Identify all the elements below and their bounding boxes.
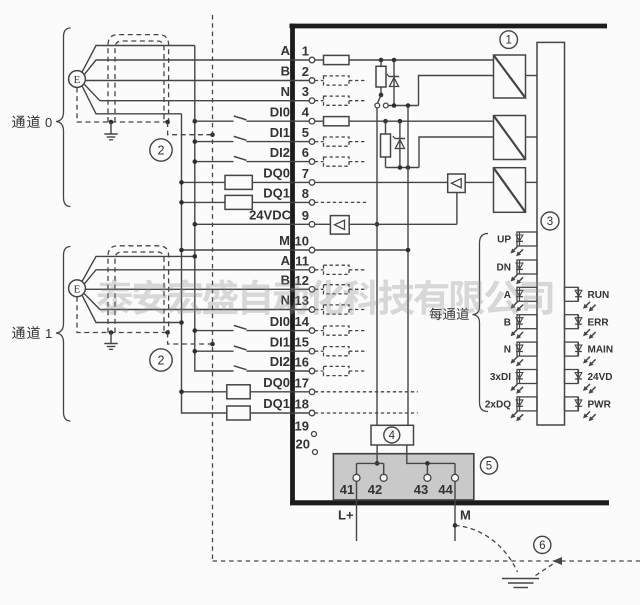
label 通道 0 [12,115,52,130]
shield drain junction dots channel 1 [109,330,170,335]
signal label M row 10 [279,233,290,248]
suppressor diode group 1 [387,60,399,106]
svg-text:24VD: 24VD [588,372,613,383]
input resistor row 6 (dashed) [315,157,367,166]
terminal number 13 [295,293,309,308]
svg-text:ERR: ERR [588,317,610,328]
wire terminal 41-42 bus [357,462,384,464]
terminal number 8 [302,186,309,201]
shield drain junction dots channel 0 [109,120,170,125]
output driver DQ0 [448,174,466,193]
comparator reference line group 1 [388,76,493,108]
terminal number 3 [302,84,309,99]
svg-text:3: 3 [547,216,553,228]
svg-text:2: 2 [158,354,165,368]
svg-text:DQ0: DQ0 [263,166,290,181]
svg-text:RUN: RUN [588,290,610,301]
signal label B row 12 [281,273,290,288]
LED 3xDI (channel) [490,370,537,394]
circled 5 [480,457,497,474]
signal label 24VDC row 9 [249,208,292,223]
terminal 13 circle [309,307,315,313]
wire row 10 (M) inside [315,249,408,251]
functional earth dashed vertical line [212,15,214,561]
wire 24VDC row lead [193,222,310,227]
terminal number 9 [302,208,309,223]
label 通道 1 [12,326,52,341]
signal label DI2 row 6 [270,145,290,160]
LED B (channel) [504,315,537,339]
opto-coupler U1 [494,55,526,98]
svg-text:11: 11 [295,253,309,268]
shield ellipse outer channel 0 [108,35,169,122]
functional earth dashed bottom line [213,560,640,562]
input resistor row 12 (dashed) [315,285,367,294]
LED ERR (module) [565,315,610,339]
terminal 9 circle [309,222,315,228]
svg-text:9: 9 [302,208,309,223]
svg-text:18: 18 [295,397,309,412]
wire encoder ch0 B lead [85,80,309,82]
comparator reference line group 2 [386,137,494,170]
input resistor row 5 (dashed) [315,137,367,146]
terminal 8 circle [309,200,315,206]
signal label DQ1 row 18 [263,396,290,411]
LED 2xDQ (channel) [485,397,537,421]
svg-text:DQ1: DQ1 [263,186,290,201]
svg-text:DQ1: DQ1 [263,396,290,411]
load DQ1 ch0 [179,195,309,209]
wire encoder ch0 M lead [82,85,182,113]
terminal 41 [340,463,360,497]
svg-text:N: N [281,84,290,99]
wire encoder ch1 B lead [85,288,309,290]
terminal 3 circle [309,98,315,104]
svg-text:3: 3 [302,84,309,99]
terminal 1 circle [309,57,315,63]
svg-text:14: 14 [295,314,310,329]
wire 24VDC to driver supply [349,193,457,225]
shield drain dashed line channel 1 [77,297,168,333]
opto-coupler U3 [494,168,526,213]
terminal 17 circle [309,389,315,395]
wire encoder ch0 N lead [84,84,309,100]
input resistor row 14 (dashed) [315,326,367,335]
module enclosure bottom edge [290,500,609,505]
input resistor row 15 (dashed) [315,347,367,356]
svg-text:MAIN: MAIN [588,345,614,356]
signal label DI0 row 14 [270,314,290,329]
svg-text:2: 2 [158,144,165,158]
svg-text:DI0: DI0 [270,314,290,329]
svg-text:20: 20 [296,437,310,452]
label M power [460,508,471,523]
label L+ [338,508,354,523]
svg-text:0: 0 [45,115,52,130]
svg-text:E: E [74,74,81,86]
signal label N row 13 [281,293,290,308]
input resistor row 4 (solid) [315,117,349,126]
supply driver 24VDC [330,216,349,235]
shield ellipse inner channel 1 [115,252,164,333]
terminal 43 [414,463,431,497]
LED PWR (module) [565,397,612,421]
terminal 20 circle and number [296,437,318,455]
signal label A row 11 [281,253,291,268]
circled 1 [500,31,518,49]
svg-text:DI2: DI2 [270,145,290,160]
shield drain to equipotential line channel 1 [168,333,215,347]
wire opto U2 to bus interface [526,136,538,138]
LED N (channel) [504,342,537,366]
svg-text:2xDQ: 2xDQ [485,400,511,411]
wire row 9 inside [315,223,331,225]
LED RUN (module) [565,287,610,311]
circled 3 [541,212,559,230]
svg-text:B: B [281,64,290,79]
shield drain to equipotential line channel 0 [168,122,215,137]
brace channel 1 [56,247,71,422]
switch contact DI0 ch1 [193,325,310,333]
wire encoder ch1 N lead [84,294,309,310]
signal label DI1 row 15 [270,334,290,349]
encoder E channel 1 [69,280,86,297]
svg-text:L+: L+ [338,508,354,523]
svg-text:24VDC: 24VDC [249,208,292,223]
watermark company name [97,279,552,315]
svg-text:6: 6 [539,540,545,552]
input resistor row 2 (dashed) [315,76,367,85]
circled 2 channel 0 [150,139,172,161]
terminal number 6 [302,145,309,160]
earth ground symbol [502,579,539,588]
svg-text:M: M [460,508,471,523]
svg-text:10: 10 [295,234,309,249]
LED UP (channel) [497,232,537,256]
switch contact DI2 ch1 [234,366,309,371]
load DQ1 ch1 [227,406,309,420]
svg-text:DI1: DI1 [270,334,290,349]
signal label DI2 row 16 [270,354,290,369]
wire row 4 to opto-coupler [349,119,494,124]
circled 6 [534,536,551,553]
signal label DQ0 row 17 [263,375,290,390]
terminal 14 circle [309,328,315,334]
svg-text:A: A [281,43,291,58]
brace channel 0 [56,28,71,207]
svg-text:8: 8 [302,186,309,201]
LED MAIN (module) [565,342,614,366]
ground symbol channel 0 shield [104,122,117,140]
wire M down [453,481,458,541]
input resistor row 1 (solid) [315,55,349,64]
wire 24VDC rail (left) [195,46,234,372]
shield drain dashed line channel 0 [77,88,168,123]
power supply box 4 [371,425,414,445]
svg-text:4: 4 [389,430,396,442]
row 17 dashed stub [315,391,418,393]
terminal 12 circle [309,287,315,293]
switch contact DI0 ch0 [193,116,310,123]
dashed diagonal earth to arrow [536,562,557,576]
module enclosure left edge [290,24,295,505]
svg-text:DQ0: DQ0 [263,375,290,390]
terminal number 5 [302,125,309,140]
svg-text:DI2: DI2 [270,354,290,369]
switch contact DI2 ch0 [193,156,310,164]
svg-text:7: 7 [302,166,309,181]
row 18 dashed stub [315,412,418,414]
terminal number 10 [295,234,309,249]
svg-text:B: B [504,317,511,328]
wire opto U3 to bus interface [526,181,538,183]
svg-text:5: 5 [302,125,309,140]
terminal 16 circle [309,368,315,374]
LED 24VD (module) [565,370,613,394]
terminal 15 circle [309,348,315,354]
terminal number 17 [295,375,309,390]
terminal 42 [368,463,387,497]
row 8 dashed stub [315,201,367,203]
svg-text:A: A [504,290,511,301]
wire opto U1 to bus interface [526,75,538,77]
terminal 7 circle [309,180,315,186]
terminal number 18 [295,397,309,412]
svg-text:17: 17 [295,375,309,390]
dashed curve M to earth [455,525,518,572]
brace per-channel LEDs [473,234,489,412]
svg-text:M: M [279,233,290,248]
load DQ0 ch0 [179,175,309,189]
wire L+ down [356,481,358,541]
arrowhead on bottom dashed line [553,557,563,565]
terminal block 5 (gray) [333,454,473,500]
svg-text:42: 42 [368,482,382,497]
svg-text:DN: DN [497,263,511,274]
input resistor row 3 (dashed) [315,96,367,105]
svg-text:3xDI: 3xDI [490,372,511,383]
input resistor row 11 (dashed) [315,265,367,274]
internal 24VDC rail to terminal block [375,108,380,425]
wire M rail (left) [182,114,227,413]
svg-text:19: 19 [295,418,309,433]
wire encoder ch1 M lead [82,295,184,325]
wire encoder ch0 A lead [84,60,309,75]
svg-text:DI1: DI1 [270,125,290,140]
wire box4 output M [407,445,455,466]
LED DN (channel) [497,260,537,284]
terminal number 1 [302,44,309,59]
svg-text:E: E [74,284,81,296]
terminal 18 circle [309,410,315,416]
svg-text:2: 2 [302,64,309,79]
terminal 10 circle [309,247,315,253]
input resistor row 13 (dashed) [315,305,367,314]
opto-coupler U2 [494,116,526,160]
terminal 4 circle [309,118,315,124]
svg-text:1: 1 [302,44,309,59]
svg-text:5: 5 [486,461,492,473]
wire encoder ch1 A lead [84,270,309,284]
terminal number 2 [302,64,309,79]
switch contact DI1 ch0 [193,136,310,144]
wire M row lead [179,248,309,253]
svg-text:15: 15 [295,335,309,350]
svg-text:1: 1 [505,35,511,47]
terminal 6 circle [309,159,315,165]
circled 2 channel 1 [150,349,172,371]
svg-text:1: 1 [45,326,52,341]
encoder E channel 0 [69,71,86,88]
signal label B row 2 [281,64,290,79]
terminal 5 circle [309,139,315,145]
signal label DI1 row 5 [270,125,290,140]
svg-text:DI0: DI0 [270,104,290,119]
shield ellipse outer channel 1 [108,246,169,333]
signal label DQ1 row 8 [263,186,290,201]
terminal number 12 [295,273,309,288]
svg-text:A: A [281,253,291,268]
wire box4 output L+ [375,445,380,466]
svg-text:41: 41 [340,482,354,497]
svg-text:N: N [504,345,511,356]
wire row 7 inside [315,181,448,183]
terminal number 14 [295,314,310,329]
terminal number 7 [302,166,309,181]
module enclosure top edge [290,24,608,29]
LED A (channel) [504,287,537,311]
internal M rail to terminal block [406,106,411,426]
switch contact DI1 ch1 [193,346,310,354]
signal label DI0 row 4 [270,104,290,119]
signal label N row 3 [281,84,290,99]
terminal 2 circle [309,78,315,84]
svg-text:PWR: PWR [588,400,612,411]
bus interface block [537,42,565,425]
pull-up resistor group 1 [376,60,386,103]
load DQ0 ch1 [179,385,309,399]
terminal number 16 [295,355,309,370]
svg-text:4: 4 [302,105,310,120]
svg-text:44: 44 [438,482,453,497]
terminal 11 circle [309,267,315,273]
svg-text:16: 16 [295,355,309,370]
terminal 44 [438,463,458,497]
wire encoder ch0 24VDC lead [82,46,195,73]
svg-text:43: 43 [414,482,428,497]
wire encoder ch1 24VDC lead [82,254,197,282]
shield ellipse inner channel 0 [115,41,164,122]
terminal number 4 [302,105,310,120]
pull-up resistor group 2 [381,121,391,167]
svg-text:UP: UP [497,235,511,246]
svg-text:6: 6 [302,145,309,160]
wire driver DQ0 to opto-coupler [465,181,493,183]
wire row 1 to opto-coupler [349,58,494,63]
terminal number 11 [295,253,309,268]
input resistor row 16 (dashed) [315,366,367,375]
suppressor diode group 2 [393,121,405,167]
signal label A row 1 [281,43,291,58]
ground symbol channel 1 shield [104,333,117,350]
label 每通道 [430,308,469,321]
signal label DQ0 row 7 [263,166,290,181]
terminal 19 circle and number [295,418,317,436]
jumper contacts group 1 [375,103,388,108]
terminal number 15 [295,335,309,350]
